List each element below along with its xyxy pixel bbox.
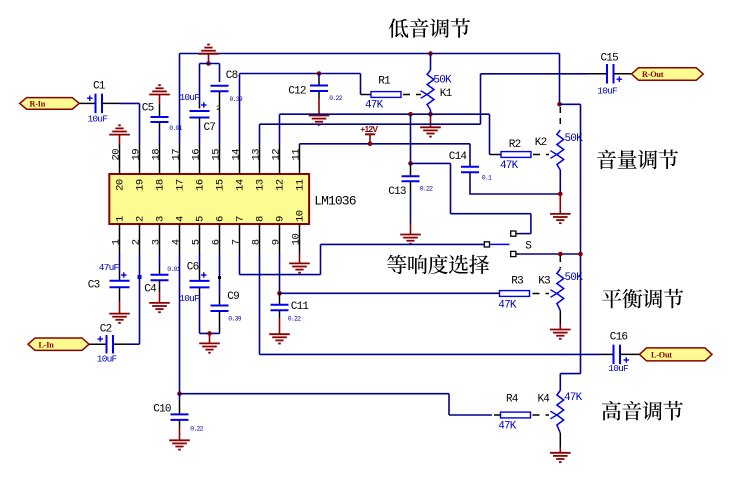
capacitor C10 0.22 xyxy=(179,394,181,400)
svg-text:K2: K2 xyxy=(535,137,547,149)
junction K2 top xyxy=(557,102,562,107)
svg-text:47K: 47K xyxy=(365,99,384,111)
ground K3 xyxy=(559,324,561,330)
svg-text:3: 3 xyxy=(151,239,163,245)
wire pin14 to R1 xyxy=(239,74,241,145)
svg-text:C13: C13 xyxy=(388,186,406,198)
svg-text:C7: C7 xyxy=(204,122,216,134)
svg-text:K1: K1 xyxy=(440,88,453,100)
wire C7/C8 tee xyxy=(200,63,220,65)
svg-text:50K: 50K xyxy=(433,74,452,86)
svg-text:C12: C12 xyxy=(288,86,306,98)
svg-text:18: 18 xyxy=(155,179,167,191)
ground C3 xyxy=(109,313,130,315)
port R-Out xyxy=(632,68,704,81)
capacitor C12 0.22 xyxy=(318,74,320,80)
svg-text:C2: C2 xyxy=(100,324,112,336)
svg-text:10uF: 10uF xyxy=(97,354,118,365)
svg-text:11: 11 xyxy=(291,149,303,161)
wire pin8 to C16 xyxy=(259,254,261,355)
wire S bottom to K3 xyxy=(516,253,520,255)
svg-text:C3: C3 xyxy=(88,280,100,292)
svg-text:15: 15 xyxy=(215,179,227,191)
svg-text:6: 6 xyxy=(211,239,223,245)
switch S common contact xyxy=(484,242,489,247)
label bass adjust xyxy=(389,18,409,37)
port R-In xyxy=(20,98,79,110)
wire C6 C9 bottoms xyxy=(200,332,220,334)
svg-text:10uF: 10uF xyxy=(179,293,200,304)
svg-text:13: 13 xyxy=(251,149,263,161)
svg-text:17: 17 xyxy=(175,179,187,191)
svg-text:0.39: 0.39 xyxy=(230,96,243,103)
svg-text:C9: C9 xyxy=(227,291,239,303)
junction K1 bottom xyxy=(428,112,433,117)
potentiometer K1 50K xyxy=(430,54,432,71)
wire C13 node to switch top xyxy=(411,162,451,164)
svg-text:10uF: 10uF xyxy=(88,114,109,125)
label volume adjust xyxy=(597,150,616,169)
svg-text:14: 14 xyxy=(235,179,247,191)
potentiometer K2 50K xyxy=(559,107,561,129)
svg-text:L-In: L-In xyxy=(39,340,55,349)
potentiometer K4 47K xyxy=(557,391,564,434)
svg-text:13: 13 xyxy=(255,179,267,191)
svg-text:50K: 50K xyxy=(565,272,584,284)
label loudness select xyxy=(387,255,406,274)
capacitor C13 0.22 xyxy=(410,114,412,163)
svg-text:0.22: 0.22 xyxy=(329,95,342,102)
svg-text:47K: 47K xyxy=(498,299,517,311)
svg-text:11: 11 xyxy=(295,179,307,191)
wire pin4 to R4 xyxy=(179,254,181,394)
switch S top contact xyxy=(511,231,516,236)
op-amp U1 LM1036 body xyxy=(109,174,309,224)
wire C16 to L-Out xyxy=(621,353,640,355)
svg-text:0.39: 0.39 xyxy=(228,316,241,323)
junction C7/C8 top xyxy=(206,61,211,66)
wire R2 wiper dashes xyxy=(533,154,549,156)
capacitor C5 0.01 xyxy=(159,104,161,117)
svg-text:4: 4 xyxy=(175,216,187,222)
ground pin10 xyxy=(299,254,301,264)
svg-text:C11: C11 xyxy=(291,301,310,313)
wire K2 top to K4 column xyxy=(560,103,581,105)
svg-text:17: 17 xyxy=(171,149,183,161)
svg-text:0.22: 0.22 xyxy=(190,426,203,433)
potentiometer K3 50K xyxy=(559,256,561,269)
capacitor C16 10uF xyxy=(613,345,615,365)
ground C11 xyxy=(269,333,290,335)
U1 pin stubs bottom xyxy=(119,224,121,254)
capacitor C6 10uF xyxy=(199,254,201,269)
wire top rail xyxy=(180,53,560,55)
ground C10 xyxy=(169,439,190,441)
power +12V xyxy=(365,133,375,135)
svg-text:C8: C8 xyxy=(226,70,238,82)
svg-text:2: 2 xyxy=(131,239,143,245)
svg-text:12: 12 xyxy=(271,149,283,161)
svg-text:2: 2 xyxy=(135,216,147,222)
svg-text:C1: C1 xyxy=(93,81,106,93)
ground K2 xyxy=(559,194,561,214)
wire pin13 to C15 xyxy=(259,124,261,144)
ground pin20 xyxy=(109,134,130,136)
capacitor C4 0.01 xyxy=(159,254,161,268)
switch S bottom contact xyxy=(511,251,516,256)
ground C6/C9 xyxy=(209,333,211,343)
resistor R1 47K xyxy=(371,92,401,98)
svg-text:10uF: 10uF xyxy=(180,92,201,103)
svg-text:0.1: 0.1 xyxy=(482,175,492,182)
svg-text:8: 8 xyxy=(251,239,263,245)
resistor R4 47K xyxy=(501,412,531,418)
svg-text:C5: C5 xyxy=(142,103,154,115)
svg-text:47K: 47K xyxy=(500,160,519,172)
capacitor C11 0.22 xyxy=(279,293,281,305)
wire C14 to K2 bottom xyxy=(470,180,560,194)
junction wireA C13 xyxy=(408,112,413,117)
svg-text:S: S xyxy=(525,241,532,253)
svg-text:0.22: 0.22 xyxy=(420,186,433,193)
wire C1 to pin19 xyxy=(103,102,121,104)
label balance adjust xyxy=(602,289,621,308)
label treble adjust xyxy=(602,401,621,421)
wire pin17 to top rail xyxy=(179,54,181,145)
svg-text:16: 16 xyxy=(195,179,207,191)
svg-text:8: 8 xyxy=(255,216,267,222)
capacitor C9 0.39 xyxy=(219,254,221,298)
svg-text:C4: C4 xyxy=(144,284,157,296)
ground above C5 xyxy=(149,94,170,96)
svg-text:10: 10 xyxy=(295,210,307,222)
ground K1 xyxy=(430,114,432,127)
svg-text:20: 20 xyxy=(111,149,123,161)
svg-text:R3: R3 xyxy=(511,275,523,287)
wire pin9 to R3 xyxy=(279,254,281,294)
port L-Out xyxy=(640,348,713,361)
U1 pin stubs top xyxy=(299,144,301,174)
svg-text:0.22: 0.22 xyxy=(288,316,301,323)
capacitor C14 0.1 xyxy=(469,161,471,167)
svg-text:0.01: 0.01 xyxy=(167,266,180,273)
wire top rail to K2 xyxy=(559,54,561,105)
svg-text:12: 12 xyxy=(275,179,287,191)
port L-In xyxy=(28,338,89,350)
capacitor C1 10uF xyxy=(95,94,97,114)
ground C4 xyxy=(149,302,170,304)
svg-text:K4: K4 xyxy=(538,394,551,406)
svg-text:20: 20 xyxy=(115,179,127,191)
svg-text:R-In: R-In xyxy=(30,100,46,109)
svg-text:L-Out: L-Out xyxy=(651,351,672,360)
svg-text:R4: R4 xyxy=(506,394,519,406)
capacitor C8 0.39 xyxy=(211,85,229,87)
svg-text:K3: K3 xyxy=(538,275,550,287)
svg-text:R-Out: R-Out xyxy=(642,70,664,79)
ground C13 xyxy=(400,234,421,236)
junction K1 top xyxy=(428,51,433,56)
svg-text:C15: C15 xyxy=(601,53,619,65)
svg-text:19: 19 xyxy=(131,149,143,161)
svg-text:+12V: +12V xyxy=(360,124,378,134)
svg-text:0.01: 0.01 xyxy=(169,125,182,132)
wire pin2 to C2 xyxy=(139,254,141,345)
svg-text:LM1036: LM1036 xyxy=(314,194,356,209)
svg-text:C14: C14 xyxy=(449,151,468,163)
wire pin7 to switch common xyxy=(239,254,241,275)
svg-text:10uF: 10uF xyxy=(597,86,618,97)
capacitor C15 10uF xyxy=(606,64,608,84)
svg-text:R2: R2 xyxy=(509,139,521,151)
svg-text:7: 7 xyxy=(231,239,243,245)
resistor R3 47K xyxy=(500,291,530,297)
svg-text:C10: C10 xyxy=(153,404,171,416)
svg-text:10: 10 xyxy=(291,233,303,245)
capacitor C2 10uF xyxy=(89,343,107,345)
wire R4 wiper dashes xyxy=(533,414,550,416)
wire R-In to C1 xyxy=(79,102,95,104)
capacitor C3 47uF xyxy=(119,254,121,273)
switch S blade xyxy=(490,243,510,245)
ground C12 xyxy=(309,115,330,117)
svg-text:9: 9 xyxy=(275,216,287,222)
svg-text:3: 3 xyxy=(155,216,167,222)
wire pin11 +12V rail xyxy=(299,143,301,145)
svg-text:5: 5 xyxy=(191,239,203,245)
svg-text:10uF: 10uF xyxy=(608,363,629,374)
svg-text:1: 1 xyxy=(115,216,127,222)
svg-text:15: 15 xyxy=(211,149,223,161)
junction K2 bottom xyxy=(558,192,563,197)
svg-text:14: 14 xyxy=(231,149,243,161)
wire C15 to R-Out xyxy=(614,73,632,75)
svg-text:18: 18 xyxy=(151,149,163,161)
svg-text:16: 16 xyxy=(191,149,203,161)
junction marker pin2 xyxy=(138,275,142,279)
svg-text:9: 9 xyxy=(271,239,283,245)
wire pin12 to R2 xyxy=(279,114,281,144)
svg-text:47K: 47K xyxy=(498,420,517,432)
resistor R2 47K xyxy=(501,152,531,158)
svg-text:R1: R1 xyxy=(378,76,391,88)
svg-text:6: 6 xyxy=(215,216,227,222)
svg-text:4: 4 xyxy=(171,239,183,245)
svg-text:C6: C6 xyxy=(187,262,199,274)
wire R3 wiper dashes xyxy=(533,293,550,295)
svg-text:7: 7 xyxy=(235,216,247,222)
svg-text:1: 1 xyxy=(111,239,123,245)
ground K4 xyxy=(559,447,561,453)
junction C12 xyxy=(317,71,322,76)
ground above C7/C8 xyxy=(198,53,219,55)
svg-text:C16: C16 xyxy=(610,332,628,344)
svg-text:47K: 47K xyxy=(564,392,583,404)
wire R1 wiper dashes xyxy=(403,94,421,96)
svg-text:47uF: 47uF xyxy=(99,262,120,273)
capacitor C7 10uF xyxy=(199,103,201,109)
svg-text:5: 5 xyxy=(195,216,207,222)
svg-text:19: 19 xyxy=(135,179,147,191)
